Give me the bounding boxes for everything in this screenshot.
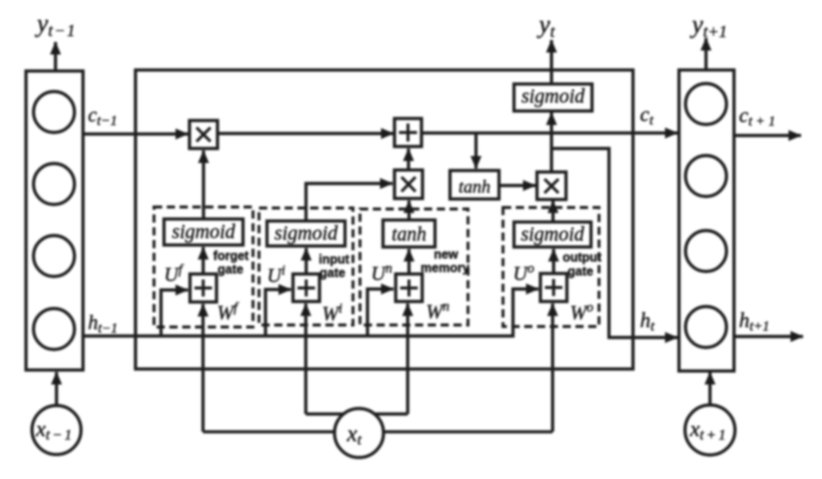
svg-text:Wn: Wn [426, 299, 450, 324]
candidate plus node [396, 274, 423, 302]
candidate tanh box [383, 220, 435, 247]
svg-text:input: input [319, 253, 350, 267]
wire tanh to output multiply [499, 184, 536, 187]
svg-text:memory: memory [421, 261, 470, 275]
wire h riser to forget plus [161, 290, 188, 336]
left neuron circle 3 [34, 236, 75, 277]
svg-text:sigmoid: sigmoid [172, 221, 236, 243]
svg-text:ct+1: ct+1 [739, 103, 775, 130]
node x(t+1) input circle [685, 405, 735, 455]
svg-text:sigmoid: sigmoid [274, 223, 338, 245]
svg-text:ht+1: ht+1 [739, 308, 770, 335]
right neuron circle 3 [686, 231, 727, 272]
wire y(t-1) output arrow [54, 42, 57, 71]
forget gate dashed box [154, 207, 253, 327]
svg-text:ct: ct [640, 102, 654, 129]
svg-text:Ui: Ui [267, 263, 285, 288]
wire h(t) branch to right column [552, 149, 678, 338]
right neuron circle 2 [686, 156, 727, 197]
svg-text:tanh: tanh [392, 225, 427, 246]
svg-text:output: output [563, 251, 603, 265]
wire x(t) riser to input plus [304, 304, 307, 415]
node x(t) circle [335, 409, 384, 458]
svg-text:sigmoid: sigmoid [521, 224, 585, 246]
output multiply node [537, 172, 566, 200]
svg-text:ht: ht [640, 308, 656, 335]
svg-text:yt+1: yt+1 [689, 12, 727, 42]
wire x(t+1) to right column [708, 372, 711, 404]
svg-text:Wi: Wi [322, 301, 343, 326]
wire x(t) riser to forget plus [201, 304, 204, 432]
svg-text:Wo: Wo [570, 300, 594, 325]
svg-text:ct−1: ct−1 [88, 105, 117, 130]
wire c(t+1) out [734, 134, 801, 137]
wire candidate plus up to candidate tanh [407, 249, 410, 274]
svg-text:gate: gate [568, 265, 594, 279]
new memory dashed box [360, 209, 468, 325]
svg-text:sigmoid: sigmoid [521, 86, 585, 108]
svg-text:gate: gate [218, 263, 244, 277]
output gate dashed box [503, 208, 599, 327]
left neuron circle 1 [34, 92, 75, 133]
wire branch down to tanh box [474, 133, 477, 169]
top sigmoid box [514, 84, 592, 111]
wire multiply to plus node [218, 132, 394, 135]
wire output multiply up to top sigmoid [550, 113, 553, 173]
wire output sigmoid up to output multiply [551, 201, 554, 223]
wire c(t-1) into multiply node [83, 132, 188, 135]
svg-text:ht−1: ht−1 [88, 312, 118, 336]
forget sigmoid box [164, 219, 243, 245]
wire plus node to c(t) into right column [422, 131, 678, 134]
left neuron circle 4 [34, 309, 75, 350]
wire h riser to input plus [266, 290, 292, 337]
wire candidate tanh up to candidate multiply [407, 201, 410, 221]
input gate dashed box [259, 208, 353, 325]
wire x(t) riser to output plus [551, 304, 554, 432]
plus node on c line [395, 119, 422, 147]
right column rectangle (time t+1 layer) [679, 70, 734, 371]
wire x(t) riser to candidate plus [406, 304, 409, 415]
wire input-gate sigmoid to candidate multiply [306, 184, 393, 222]
wire x(t) upper feed to input plus and candidate plus [306, 412, 408, 415]
wire forget plus up to forget sigmoid [202, 247, 205, 274]
svg-text:yt−1: yt−1 [34, 11, 75, 41]
LSTM cell outer box [136, 70, 634, 369]
multiply node on c line [190, 121, 218, 149]
svg-text:Un: Un [371, 261, 392, 286]
svg-text:new: new [434, 248, 459, 262]
svg-text:Uo: Uo [513, 261, 534, 286]
node x(t-1) input circle [32, 406, 81, 455]
wire h(t+1) out [734, 335, 803, 338]
output sigmoid box [514, 222, 591, 247]
forget plus node [190, 274, 217, 302]
svg-text:yt: yt [536, 12, 555, 42]
wire top sigmoid to y(t) [550, 40, 553, 84]
right neuron circle 4 [686, 307, 727, 348]
output plus node [540, 274, 567, 302]
wire y(t+1) output arrow [704, 38, 707, 70]
wire h(t-1) along bottom into output-gate plus [83, 289, 539, 336]
input sigmoid box [267, 221, 345, 246]
svg-text:gate: gate [320, 266, 346, 280]
middle tanh box [450, 171, 499, 200]
right neuron circle 1 [686, 84, 727, 125]
wire input plus up to input sigmoid [305, 248, 308, 274]
svg-text:forget: forget [213, 249, 249, 263]
svg-text:tanh: tanh [458, 177, 490, 197]
wire forget sigmoid up to multiply node [202, 151, 205, 220]
wire output plus up to output sigmoid [552, 249, 555, 274]
left column rectangle (time t-1 layer) [26, 71, 83, 370]
input plus node [293, 274, 320, 302]
candidate multiply node [395, 170, 423, 199]
svg-text:Uf: Uf [164, 262, 184, 287]
wire candidate multiply up to plus node [407, 149, 410, 171]
wire x(t-1) to left column [55, 372, 58, 405]
wire h riser to candidate plus [368, 289, 394, 336]
wire x(t) lower feed to forget plus and output plus [203, 430, 553, 433]
left neuron circle 2 [34, 164, 75, 205]
svg-text:Wf: Wf [217, 300, 240, 325]
